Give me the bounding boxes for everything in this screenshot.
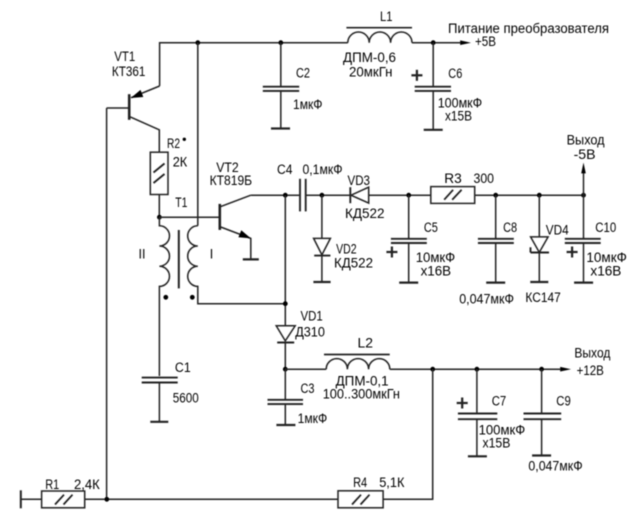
- node VD4 on middle rail: [537, 193, 542, 198]
- node C9 on +12V rail: [539, 367, 544, 372]
- capacitor C6: [411, 43, 482, 130]
- wire bottom rail R1 to R4: [85, 498, 338, 500]
- svg-text:C4: C4: [277, 162, 293, 177]
- svg-text:L2: L2: [358, 336, 374, 351]
- svg-text:КТ361: КТ361: [112, 64, 145, 79]
- wire middle rail VT2 collector to C4: [251, 194, 299, 196]
- wire VT2 base from node: [159, 216, 218, 218]
- svg-text:T1: T1: [175, 195, 187, 210]
- svg-text:VD4: VD4: [546, 223, 569, 238]
- svg-text:КД522: КД522: [334, 256, 373, 271]
- resistor R2: [150, 136, 187, 194]
- node VD1 / C3 / L2: [283, 367, 288, 372]
- svg-text:КС147: КС147: [525, 290, 560, 305]
- svg-text:х15В: х15В: [445, 109, 472, 124]
- node R2 / T1 winding II / VT2 base wire: [157, 215, 162, 220]
- node bottom rail / VT1 base line: [104, 497, 109, 502]
- svg-text:+5В: +5В: [475, 34, 496, 49]
- capacitor C2: [263, 43, 323, 129]
- svg-text:C9: C9: [556, 394, 571, 409]
- svg-text:х16В: х16В: [421, 263, 452, 278]
- svg-text:R1: R1: [45, 477, 59, 492]
- wire L2 to +12V arrow: [390, 368, 562, 370]
- arrow -5V output: [567, 133, 605, 196]
- svg-text:+12В: +12В: [577, 363, 604, 378]
- ground C9: [532, 454, 551, 456]
- wire C4 to VD3: [306, 194, 350, 196]
- svg-text:КД522: КД522: [345, 206, 385, 221]
- wire top rail from VT1 emitter corner to L1: [160, 43, 348, 86]
- svg-text:Д310: Д310: [295, 325, 325, 340]
- svg-text:R4: R4: [353, 475, 368, 490]
- node C7 on +12V rail: [475, 367, 480, 372]
- wire R2 bottom to T1 node: [158, 195, 160, 218]
- svg-text:2,4К: 2,4К: [74, 477, 100, 492]
- wire vertical x=285 from middle rail down: [284, 195, 286, 326]
- svg-text:VD1: VD1: [301, 309, 323, 324]
- wire VD3 to R3: [369, 194, 431, 196]
- arrow +12V output: [560, 346, 610, 378]
- wire R3 to -5V output: [475, 194, 584, 196]
- node R4 riser on +12V rail: [430, 367, 435, 372]
- ground VD4: [530, 281, 548, 283]
- svg-text:КТ819Б: КТ819Б: [210, 173, 253, 188]
- diode VD3: [345, 173, 385, 221]
- T1 phase dot winding II: [163, 295, 168, 300]
- wire VT1 base left vertical down to bottom rail: [106, 108, 108, 499]
- capacitor C10: [565, 195, 627, 282]
- diode VD2: [314, 195, 373, 282]
- svg-text:300: 300: [474, 171, 495, 186]
- svg-text:1мкФ: 1мкФ: [298, 411, 328, 426]
- svg-text:ДПМ-0,6: ДПМ-0,6: [343, 50, 396, 65]
- svg-text:Питание преобразователя: Питание преобразователя: [448, 21, 609, 36]
- diode VD1: [276, 309, 325, 370]
- svg-text:0,1мкФ: 0,1мкФ: [303, 162, 343, 177]
- svg-text:I: I: [210, 247, 214, 262]
- ground C6: [424, 129, 443, 131]
- svg-text:100..300мкГн: 100..300мкГн: [323, 387, 400, 402]
- node top rail / C2: [278, 40, 283, 45]
- svg-text:C6: C6: [448, 66, 462, 81]
- inductor L2: [323, 336, 400, 402]
- ground C2: [271, 127, 290, 129]
- svg-text:-5В: -5В: [574, 147, 596, 162]
- svg-text:2К: 2К: [173, 155, 188, 170]
- svg-text:5,1К: 5,1К: [379, 475, 404, 490]
- node middle rail / vertical to T1-I and VD1: [283, 193, 288, 198]
- label Питание преобразователя +5В: [448, 21, 609, 49]
- ground C10: [574, 282, 593, 284]
- ground VT2 emitter: [243, 258, 259, 260]
- resistor R4: [338, 475, 405, 508]
- capacitor C5: [386, 195, 455, 282]
- wire top rail L1 to arrow: [412, 42, 462, 44]
- ground C1: [150, 421, 168, 423]
- svg-text:Выход: Выход: [567, 133, 605, 148]
- svg-text:C8: C8: [503, 220, 517, 235]
- zener diode VD4: [525, 195, 569, 305]
- svg-text:0,047мкФ: 0,047мкФ: [528, 458, 582, 473]
- transistor VT1: [107, 49, 160, 152]
- svg-text:х15В: х15В: [483, 436, 511, 451]
- svg-text:VT1: VT1: [114, 49, 135, 64]
- wire vertical from top rail down to T1 winding I: [197, 43, 199, 226]
- input terminal tick: [20, 490, 22, 508]
- wire R4 to +12V rail riser: [383, 369, 433, 499]
- svg-text:Выход: Выход: [574, 346, 610, 361]
- svg-text:VD2: VD2: [336, 242, 357, 257]
- ground C5: [399, 282, 418, 284]
- node top rail / C6: [431, 40, 436, 45]
- capacitor C9: [524, 369, 583, 473]
- svg-text:5600: 5600: [173, 391, 199, 406]
- T1 phase dot winding I: [190, 295, 195, 300]
- svg-text:20мкГн: 20мкГн: [349, 64, 393, 79]
- svg-text:C10: C10: [595, 220, 616, 235]
- transformer T1: [139, 195, 286, 376]
- svg-text:R2: R2: [167, 136, 180, 151]
- capacitor C1: [142, 360, 199, 422]
- ground C3: [276, 424, 295, 426]
- svg-text:VD3: VD3: [348, 173, 371, 188]
- svg-text:0,047мкФ: 0,047мкФ: [459, 292, 514, 307]
- transistor VT2: [210, 160, 253, 260]
- ground VD2: [313, 281, 330, 283]
- svg-text:II: II: [139, 247, 146, 262]
- node C4-VD3 wire / VD2: [320, 193, 325, 198]
- capacitor C7: [457, 369, 526, 456]
- svg-text:1мкФ: 1мкФ: [293, 97, 323, 112]
- capacitor C3: [268, 369, 328, 426]
- node C8 on middle rail: [493, 193, 498, 198]
- inductor L1: [343, 9, 412, 79]
- svg-text:C5: C5: [424, 220, 438, 235]
- node C5 on middle rail: [406, 193, 411, 198]
- T1 winding II: [159, 217, 169, 376]
- arrow +5V output: [460, 40, 471, 45]
- wire input to R1: [21, 498, 42, 500]
- T1 core: [178, 230, 180, 288]
- capacitor C8: [459, 195, 517, 306]
- svg-text:х16В: х16В: [590, 263, 621, 278]
- node T1 winding I / x=285 vertical: [283, 301, 288, 306]
- svg-text:R3: R3: [444, 171, 462, 186]
- resistor R1: [42, 477, 100, 508]
- node top rail / vertical to T1 winding I: [195, 40, 200, 45]
- node C10 / -5V arrow: [581, 193, 586, 198]
- ground C7: [468, 455, 487, 457]
- ground C8: [486, 282, 505, 284]
- resistor R3: [431, 171, 494, 203]
- svg-text:C3: C3: [301, 381, 315, 396]
- svg-text:C1: C1: [175, 360, 191, 375]
- wire VD1 node to L2: [285, 368, 326, 370]
- svg-text:C7: C7: [492, 394, 507, 409]
- svg-text:L1: L1: [380, 9, 393, 24]
- svg-text:C2: C2: [296, 66, 310, 81]
- T1 winding I: [188, 226, 286, 304]
- capacitor C4: [277, 162, 343, 212]
